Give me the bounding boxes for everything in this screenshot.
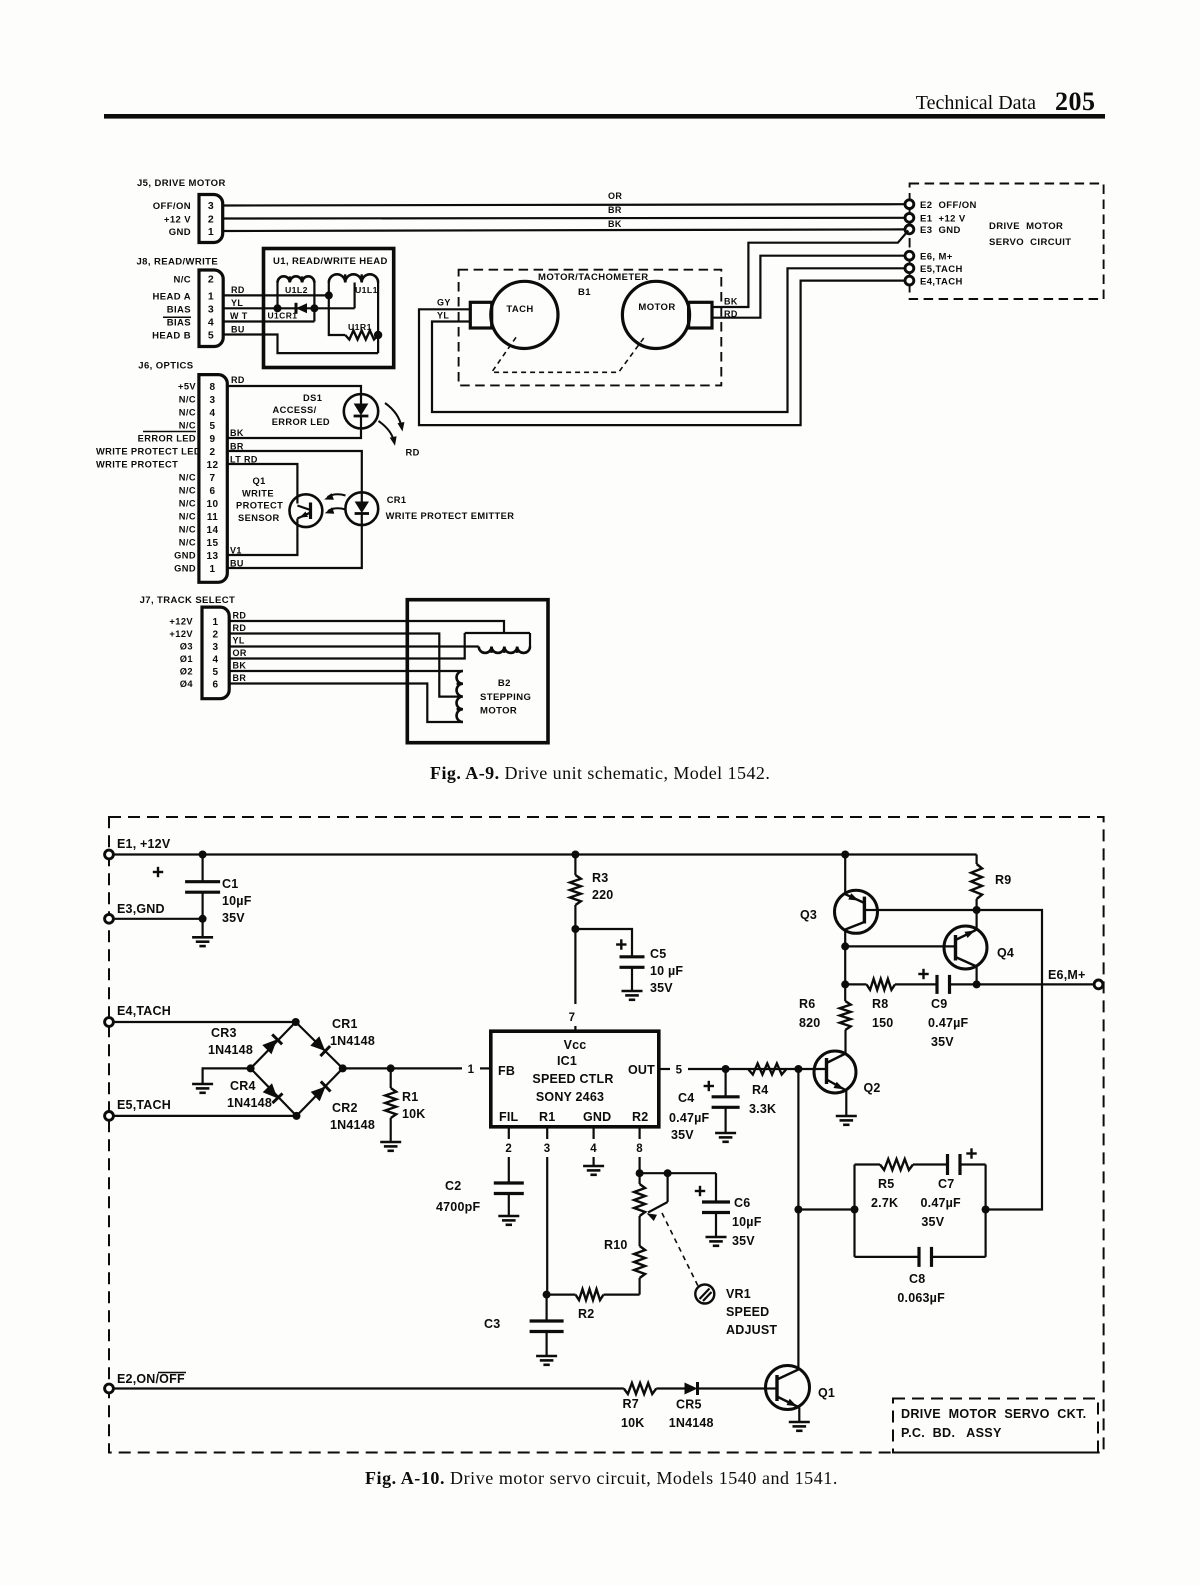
- diode U1CR1: [296, 303, 307, 313]
- diode CR5: [685, 1383, 698, 1395]
- wire R6 top to Q3 emitter junction: [844, 984, 846, 1001]
- svg-text:R2: R2: [578, 1307, 594, 1321]
- diode CR3: [262, 1039, 277, 1054]
- svg-text:GND: GND: [174, 564, 196, 574]
- wire Q1 sensor loop: J6.12 - Q1 - J6.13: [227, 464, 297, 497]
- svg-text:WRITE: WRITE: [242, 488, 274, 498]
- svg-text:CR5: CR5: [676, 1398, 702, 1412]
- svg-text:C5: C5: [650, 947, 666, 961]
- inductor U1L2: [278, 276, 315, 282]
- junction Q3 collector / Q4 base: [841, 942, 849, 950]
- wire IC1 pin 4 (GND) with gap: [592, 1127, 594, 1139]
- svg-text:HEAD B: HEAD B: [152, 330, 191, 341]
- svg-text:8: 8: [636, 1143, 643, 1155]
- svg-text:IC1: IC1: [557, 1054, 577, 1068]
- phototransistor Q1 (write protect sensor): [290, 494, 323, 527]
- VR1 dashed adjust line: [662, 1213, 698, 1286]
- svg-text:E1 +12 V: E1 +12 V: [920, 214, 966, 225]
- svg-text:SPEED: SPEED: [726, 1305, 769, 1319]
- B2A right leg: [529, 633, 531, 647]
- svg-text:Ø2: Ø2: [180, 667, 193, 677]
- svg-text:RD: RD: [231, 375, 245, 385]
- connector J5: [199, 195, 223, 243]
- svg-text:1: 1: [210, 564, 216, 575]
- wire IC1 pin 8 with gap: [638, 1127, 640, 1139]
- svg-text:N/C: N/C: [179, 395, 196, 405]
- svg-text:14: 14: [207, 525, 219, 536]
- wire DS1 loop: J6.8 - LED - J6.9: [227, 386, 361, 394]
- svg-text:U1L1: U1L1: [355, 285, 378, 295]
- junction R9/Q4 collector/feedback: [973, 906, 981, 914]
- svg-text:E6, M+: E6, M+: [920, 252, 953, 263]
- svg-text:E1, +12V: E1, +12V: [117, 837, 171, 851]
- junction C9/Q4 emitter: [973, 980, 981, 988]
- svg-text:10K: 10K: [621, 1416, 645, 1430]
- tachometer circle: [491, 281, 558, 348]
- svg-text:C6: C6: [734, 1196, 750, 1210]
- wire E6 rail: R8 C9: [845, 983, 866, 985]
- svg-text:6: 6: [213, 679, 219, 690]
- R5/C7/C8 network right vertical: [984, 1165, 986, 1257]
- svg-text:820: 820: [799, 1016, 820, 1030]
- PC board assy inner dashed box: [893, 1399, 1098, 1453]
- resistor R2: [547, 1293, 576, 1295]
- svg-text:ERROR LED: ERROR LED: [138, 434, 196, 444]
- svg-text:4: 4: [590, 1143, 597, 1155]
- svg-text:1N4148: 1N4148: [227, 1096, 272, 1110]
- svg-text:R10: R10: [604, 1238, 628, 1252]
- terminal E6 M+: [1094, 980, 1103, 989]
- svg-text:GND: GND: [174, 551, 196, 561]
- svg-text:2: 2: [208, 214, 214, 226]
- svg-text:U1CR1: U1CR1: [268, 311, 298, 321]
- svg-text:7: 7: [569, 1012, 576, 1024]
- svg-text:10µF: 10µF: [222, 894, 252, 908]
- transistor Q2: [814, 1051, 856, 1093]
- svg-text:15: 15: [207, 538, 219, 549]
- svg-text:J7, TRACK SELECT: J7, TRACK SELECT: [140, 595, 236, 606]
- wire J7.3 into B2 (coil B2A): [229, 645, 479, 647]
- svg-text:1N4148: 1N4148: [208, 1043, 253, 1057]
- svg-text:Fig. A-9. Drive unit schemati: Fig. A-9. Drive unit schematic, Model 15…: [430, 763, 770, 783]
- junction YL/U1L2 left: [274, 304, 282, 312]
- resistor R6: [840, 1001, 851, 1030]
- svg-text:PROTECT: PROTECT: [236, 501, 283, 511]
- connector J7: [202, 607, 229, 699]
- svg-text:1: 1: [468, 1064, 475, 1076]
- svg-text:R2: R2: [632, 1110, 648, 1124]
- potentiometer R10: [634, 1184, 645, 1216]
- wire Q3-Q4 base link vertical: [844, 946, 846, 984]
- svg-text:C4: C4: [678, 1091, 694, 1105]
- svg-text:Ø3: Ø3: [180, 642, 193, 652]
- svg-text:C2: C2: [445, 1179, 461, 1193]
- svg-text:BK: BK: [230, 428, 244, 438]
- junction C4/OUT: [722, 1065, 730, 1073]
- dashed shaft coupling: [492, 337, 645, 372]
- junction R10 top: [636, 1169, 644, 1177]
- svg-text:RD: RD: [233, 623, 247, 633]
- svg-text:13: 13: [207, 551, 219, 562]
- svg-text:150: 150: [872, 1016, 893, 1030]
- svg-text:2: 2: [208, 274, 214, 286]
- svg-text:R1: R1: [402, 1090, 418, 1104]
- svg-text:J6, OPTICS: J6, OPTICS: [138, 361, 193, 372]
- svg-text:C3: C3: [484, 1317, 500, 1331]
- svg-text:MOTOR/TACHOMETER: MOTOR/TACHOMETER: [538, 272, 649, 283]
- svg-text:WRITE PROTECT LED: WRITE PROTECT LED: [96, 447, 201, 457]
- svg-text:WRITE PROTECT: WRITE PROTECT: [96, 460, 178, 470]
- wire IC1 pin7 (Vcc) with gap for label: [574, 929, 576, 1004]
- R10 wiper arm: [664, 1169, 672, 1177]
- Q1 emitter ground: [798, 1408, 800, 1423]
- header rule: [104, 114, 1105, 119]
- svg-text:CR4: CR4: [230, 1079, 256, 1093]
- svg-text:7: 7: [210, 473, 216, 484]
- CR1 beam arrow 2: [328, 508, 346, 511]
- DS1 emission arrow 2: [379, 421, 395, 442]
- wire J7.2 into B2: [229, 634, 461, 697]
- svg-text:P.C. BD. ASSY: P.C. BD. ASSY: [901, 1426, 1002, 1440]
- svg-text:U1, READ/WRITE HEAD: U1, READ/WRITE HEAD: [273, 256, 388, 267]
- wire OUT pin 5 with gap: [659, 1068, 670, 1070]
- wire WT: J8.4 to U1L2 right leg: [223, 320, 314, 322]
- resistor R4: [748, 1064, 787, 1075]
- svg-text:R9: R9: [995, 873, 1011, 887]
- capacitor C1: [202, 855, 204, 882]
- svg-text:N/C: N/C: [179, 525, 196, 535]
- svg-text:R1: R1: [539, 1110, 555, 1124]
- svg-text:C7: C7: [938, 1177, 954, 1191]
- svg-text:3: 3: [208, 303, 214, 315]
- tach connector stub: [470, 302, 491, 328]
- wire J7.5 into B2 (coil B2B): [229, 670, 463, 672]
- svg-text:U1L2: U1L2: [285, 285, 308, 295]
- svg-text:MOTOR: MOTOR: [638, 302, 675, 313]
- svg-text:Q1: Q1: [253, 476, 266, 486]
- svg-text:+12V: +12V: [169, 617, 193, 627]
- svg-text:10µF: 10µF: [732, 1215, 762, 1229]
- svg-text:N/C: N/C: [179, 499, 196, 509]
- svg-text:ACCESS/: ACCESS/: [273, 405, 317, 415]
- svg-text:YL: YL: [233, 636, 245, 646]
- junction C1/rail: [199, 851, 207, 859]
- motor circle: [622, 281, 689, 348]
- inductor U1L1: [329, 274, 378, 282]
- junction R3/C5: [571, 925, 579, 933]
- junction at R5 branch: [794, 1206, 802, 1214]
- wire CR5 to Q1 base: [699, 1387, 767, 1389]
- wire YL: J8.3 bias wire: [223, 307, 354, 309]
- svg-text:1: 1: [208, 226, 214, 238]
- svg-text:DRIVE MOTOR SERVO CKT.: DRIVE MOTOR SERVO CKT.: [901, 1407, 1086, 1421]
- svg-text:J8, READ/WRITE: J8, READ/WRITE: [137, 257, 219, 268]
- svg-text:205: 205: [1055, 87, 1096, 116]
- wire GY: tach to E4: [419, 281, 905, 426]
- svg-text:STEPPING: STEPPING: [480, 692, 531, 703]
- svg-text:OR: OR: [233, 648, 247, 658]
- svg-text:4: 4: [213, 654, 219, 665]
- svg-text:11: 11: [207, 512, 218, 523]
- resistor R7: [624, 1383, 657, 1394]
- svg-text:1N4148: 1N4148: [669, 1416, 714, 1430]
- resistor R8: [867, 979, 896, 990]
- svg-text:TACH: TACH: [506, 304, 533, 315]
- svg-text:GY: GY: [437, 298, 451, 308]
- wire E3 to C1: [113, 918, 202, 920]
- junction C3/R2: [543, 1291, 551, 1299]
- svg-text:35V: 35V: [931, 1035, 954, 1049]
- svg-text:DS1: DS1: [303, 393, 322, 403]
- svg-text:Fig. A-10. Drive motor servo: Fig. A-10. Drive motor servo circuit, Mo…: [365, 1468, 838, 1488]
- terminal E1 +12V: [105, 850, 114, 859]
- resistor R3: [574, 855, 576, 876]
- svg-text:R8: R8: [872, 997, 888, 1011]
- capacitor C2: [494, 1181, 524, 1184]
- Q2 emitter ground: [845, 1091, 847, 1117]
- svg-text:SENSOR: SENSOR: [238, 513, 280, 523]
- svg-text:2: 2: [505, 1143, 512, 1155]
- svg-text:SERVO CIRCUIT: SERVO CIRCUIT: [989, 237, 1072, 248]
- wire Q1 collector node to R5 network: [798, 1208, 854, 1210]
- svg-text:5: 5: [208, 329, 214, 341]
- junction R5 network right: [982, 1206, 990, 1214]
- ground at IC1 pin 4: [583, 1165, 604, 1168]
- U1L2 right leg: [313, 283, 315, 322]
- junction R4/Q2 base: [794, 1065, 802, 1073]
- servo board outer dashed border: [109, 817, 1104, 1453]
- capacitor C3: [545, 1295, 547, 1321]
- svg-text:3: 3: [210, 395, 216, 406]
- wire J7.1 into B2: [229, 621, 504, 633]
- svg-text:5: 5: [213, 667, 219, 678]
- U1 read/write head box: [264, 249, 394, 368]
- svg-text:9: 9: [210, 434, 216, 445]
- svg-text:1: 1: [213, 617, 219, 628]
- terminal E6 M+: [905, 251, 914, 260]
- svg-text:2: 2: [213, 629, 219, 640]
- svg-text:CR3: CR3: [211, 1026, 237, 1040]
- CR1 beam arrow 1: [328, 494, 346, 497]
- VR1 speed adjust symbol: [695, 1285, 714, 1304]
- svg-text:OFF/ON: OFF/ON: [153, 201, 191, 212]
- svg-text:DRIVE MOTOR: DRIVE MOTOR: [989, 221, 1063, 232]
- svg-text:10K: 10K: [402, 1107, 426, 1121]
- svg-text:OR: OR: [608, 191, 622, 201]
- svg-text:5: 5: [210, 421, 216, 432]
- terminal E1 +12V: [905, 213, 914, 222]
- svg-text:Ø4: Ø4: [180, 679, 194, 689]
- svg-text:+12 V: +12 V: [164, 215, 191, 226]
- svg-text:BIAS: BIAS: [167, 304, 191, 315]
- transistor Q4: [944, 926, 987, 969]
- diode bridge edges: [251, 1022, 296, 1068]
- terminal E4 TACH: [905, 276, 914, 285]
- IC U1 speed controller box: [491, 1031, 659, 1127]
- svg-text:1N4148: 1N4148: [330, 1118, 375, 1132]
- junction YL/U1L2 right: [310, 304, 318, 312]
- svg-text:GND: GND: [583, 1110, 611, 1124]
- svg-text:HEAD A: HEAD A: [153, 292, 191, 303]
- wire J7.6 into B2: [229, 684, 463, 723]
- resistor R1: [390, 1068, 392, 1088]
- svg-text:Vcc: Vcc: [564, 1038, 587, 1052]
- terminal E3 GND: [105, 914, 114, 923]
- svg-text:4: 4: [208, 316, 214, 328]
- svg-text:J5, DRIVE MOTOR: J5, DRIVE MOTOR: [137, 178, 226, 189]
- wire BK: motor to E3: [712, 231, 908, 308]
- svg-text:BK: BK: [724, 297, 738, 307]
- svg-text:E6,M+: E6,M+: [1048, 968, 1085, 982]
- svg-text:35V: 35V: [650, 981, 673, 995]
- svg-text:VR1: VR1: [726, 1287, 751, 1301]
- svg-text:E2 OFF/ON: E2 OFF/ON: [920, 200, 977, 211]
- svg-text:FIL: FIL: [499, 1110, 519, 1124]
- resistor U1R1: [345, 331, 378, 340]
- svg-text:35V: 35V: [921, 1215, 944, 1229]
- svg-text:GND: GND: [169, 227, 191, 238]
- terminal E2 OFF/ON: [905, 200, 914, 209]
- winding B2A horizontal: [479, 647, 530, 653]
- svg-text:0.47µF: 0.47µF: [669, 1111, 710, 1125]
- svg-text:CR1: CR1: [387, 495, 407, 505]
- svg-text:0.47µF: 0.47µF: [928, 1016, 969, 1030]
- svg-text:3: 3: [544, 1143, 551, 1155]
- svg-text:220: 220: [592, 888, 613, 902]
- drive motor servo circuit dashed box: [910, 184, 1104, 300]
- svg-text:C1: C1: [222, 877, 238, 891]
- svg-text:Ø1: Ø1: [180, 654, 193, 664]
- transistor Q3: [835, 890, 878, 933]
- U1L2 left leg: [276, 283, 278, 309]
- terminal E5 TACH: [105, 1112, 114, 1121]
- terminal E2 ON/OFF: [105, 1384, 114, 1393]
- wire YL vertical to U1L1 tap: [354, 283, 356, 309]
- capacitor C8: [855, 1256, 920, 1258]
- junction Q3/rail: [841, 851, 849, 859]
- svg-text:ERROR LED: ERROR LED: [272, 417, 330, 427]
- svg-text:N/C: N/C: [179, 408, 196, 418]
- wire IC1 pin 3 with gap: [546, 1127, 548, 1139]
- svg-text:2.7K: 2.7K: [871, 1196, 898, 1210]
- svg-text:Q1: Q1: [818, 1386, 835, 1400]
- wire CR1 emitter loop: J6.2 - CR1 - J6.1: [227, 451, 361, 492]
- wire E5 to bridge bottom: [113, 1115, 296, 1117]
- svg-text:N/C: N/C: [179, 473, 196, 483]
- svg-text:B2: B2: [498, 678, 511, 689]
- svg-text:N/C: N/C: [179, 512, 196, 522]
- wire Q3 base to R9 junction: [877, 909, 976, 911]
- svg-text:35V: 35V: [671, 1128, 694, 1142]
- wire J5.1 to E3 (BK): [223, 229, 906, 231]
- svg-text:BR: BR: [233, 673, 247, 683]
- U1L1 right leg: [377, 283, 379, 354]
- svg-text:BK: BK: [608, 219, 622, 229]
- svg-text:E5,TACH: E5,TACH: [920, 264, 963, 275]
- capacitor C5: [575, 929, 632, 957]
- wire BU: J8.5 to U1 bottom rail: [223, 335, 378, 354]
- svg-text:2: 2: [210, 447, 216, 458]
- svg-text:ADJUST: ADJUST: [726, 1323, 777, 1337]
- svg-text:0.063µF: 0.063µF: [897, 1291, 945, 1305]
- svg-text:E4,TACH: E4,TACH: [117, 1004, 171, 1018]
- resistor R9: [975, 855, 977, 865]
- wire IC1 pin 2 with gap: [508, 1127, 510, 1139]
- svg-text:YL: YL: [231, 298, 243, 308]
- wire E2 to R7: [113, 1387, 623, 1389]
- wire FB: bridge to IC1 pin 1 with gap: [343, 1067, 462, 1069]
- ground at bridge left corner: [203, 1068, 251, 1084]
- svg-text:3: 3: [213, 642, 219, 653]
- svg-text:5: 5: [676, 1065, 683, 1077]
- svg-text:3: 3: [208, 200, 214, 212]
- svg-text:E4,TACH: E4,TACH: [920, 277, 963, 288]
- svg-text:E3 GND: E3 GND: [920, 225, 961, 236]
- svg-text:CR1: CR1: [332, 1017, 358, 1031]
- connector J6: [199, 375, 227, 583]
- svg-text:OUT: OUT: [628, 1063, 655, 1077]
- svg-text:W T: W T: [230, 311, 248, 321]
- svg-text:R3: R3: [592, 871, 608, 885]
- svg-text:B1: B1: [578, 287, 591, 298]
- svg-text:Q3: Q3: [800, 908, 817, 922]
- wire Q4 emitter down: [975, 967, 977, 985]
- svg-text:RD: RD: [406, 448, 420, 458]
- svg-text:Technical Data: Technical Data: [916, 92, 1036, 114]
- motor connector stub: [689, 302, 712, 328]
- junction R6/R8 (E6 rail left): [841, 980, 849, 988]
- svg-text:0.47µF: 0.47µF: [921, 1196, 962, 1210]
- svg-text:3.3K: 3.3K: [749, 1102, 776, 1116]
- capacitor C7: [946, 1154, 949, 1175]
- connector J8: [199, 270, 223, 347]
- svg-text:6: 6: [210, 486, 216, 497]
- transistor Q1: [766, 1366, 810, 1410]
- svg-text:N/C: N/C: [179, 538, 196, 548]
- terminal E5 TACH: [905, 264, 914, 273]
- svg-text:R4: R4: [752, 1083, 768, 1097]
- junction R5 network left: [851, 1206, 859, 1214]
- wire Q2 collector to R6: [844, 1030, 846, 1054]
- terminal E3 GND: [905, 225, 914, 234]
- svg-text:BR: BR: [608, 205, 622, 215]
- feedback wire from R9 junction to R5/C7: [977, 910, 1042, 1210]
- DS1 emission arrow 1: [385, 403, 402, 427]
- junction E3/C1: [199, 915, 207, 923]
- resistor R5: [855, 1163, 881, 1165]
- wire RD: motor to E6: [712, 256, 905, 318]
- capacitor C9: [918, 973, 928, 975]
- svg-text:12: 12: [207, 460, 219, 471]
- bridge corner junctions: [292, 1018, 300, 1026]
- junction U1R1/U1L1 leg: [374, 331, 382, 339]
- svg-text:R5: R5: [878, 1177, 894, 1191]
- capacitor C4: [724, 1069, 726, 1097]
- wire J5.3 to E2 (OR): [223, 204, 906, 205]
- ground below C1: [202, 919, 204, 938]
- svg-text:SPEED CTLR: SPEED CTLR: [532, 1072, 613, 1086]
- B2A top bar: [465, 632, 530, 634]
- LED DS1 access/error: [344, 394, 378, 428]
- svg-text:C8: C8: [909, 1272, 925, 1286]
- motor/tachometer dashed box: [459, 270, 722, 386]
- wire RD branch down to U1R1: [329, 295, 345, 335]
- svg-text:+12V: +12V: [169, 629, 193, 639]
- svg-text:YL: YL: [437, 311, 449, 321]
- wire R10 top link: [640, 1172, 716, 1174]
- svg-text:FB: FB: [498, 1064, 515, 1078]
- wire YL: tach to E5: [432, 268, 905, 412]
